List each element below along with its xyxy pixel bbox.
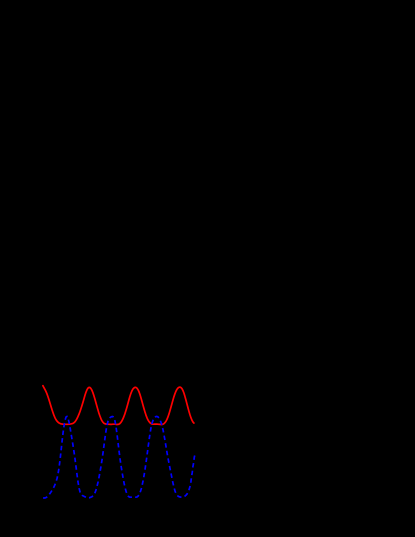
blue dashed curve (lower-state population) — [43, 416, 195, 498]
red solid curve (upper-state population) — [43, 386, 194, 425]
